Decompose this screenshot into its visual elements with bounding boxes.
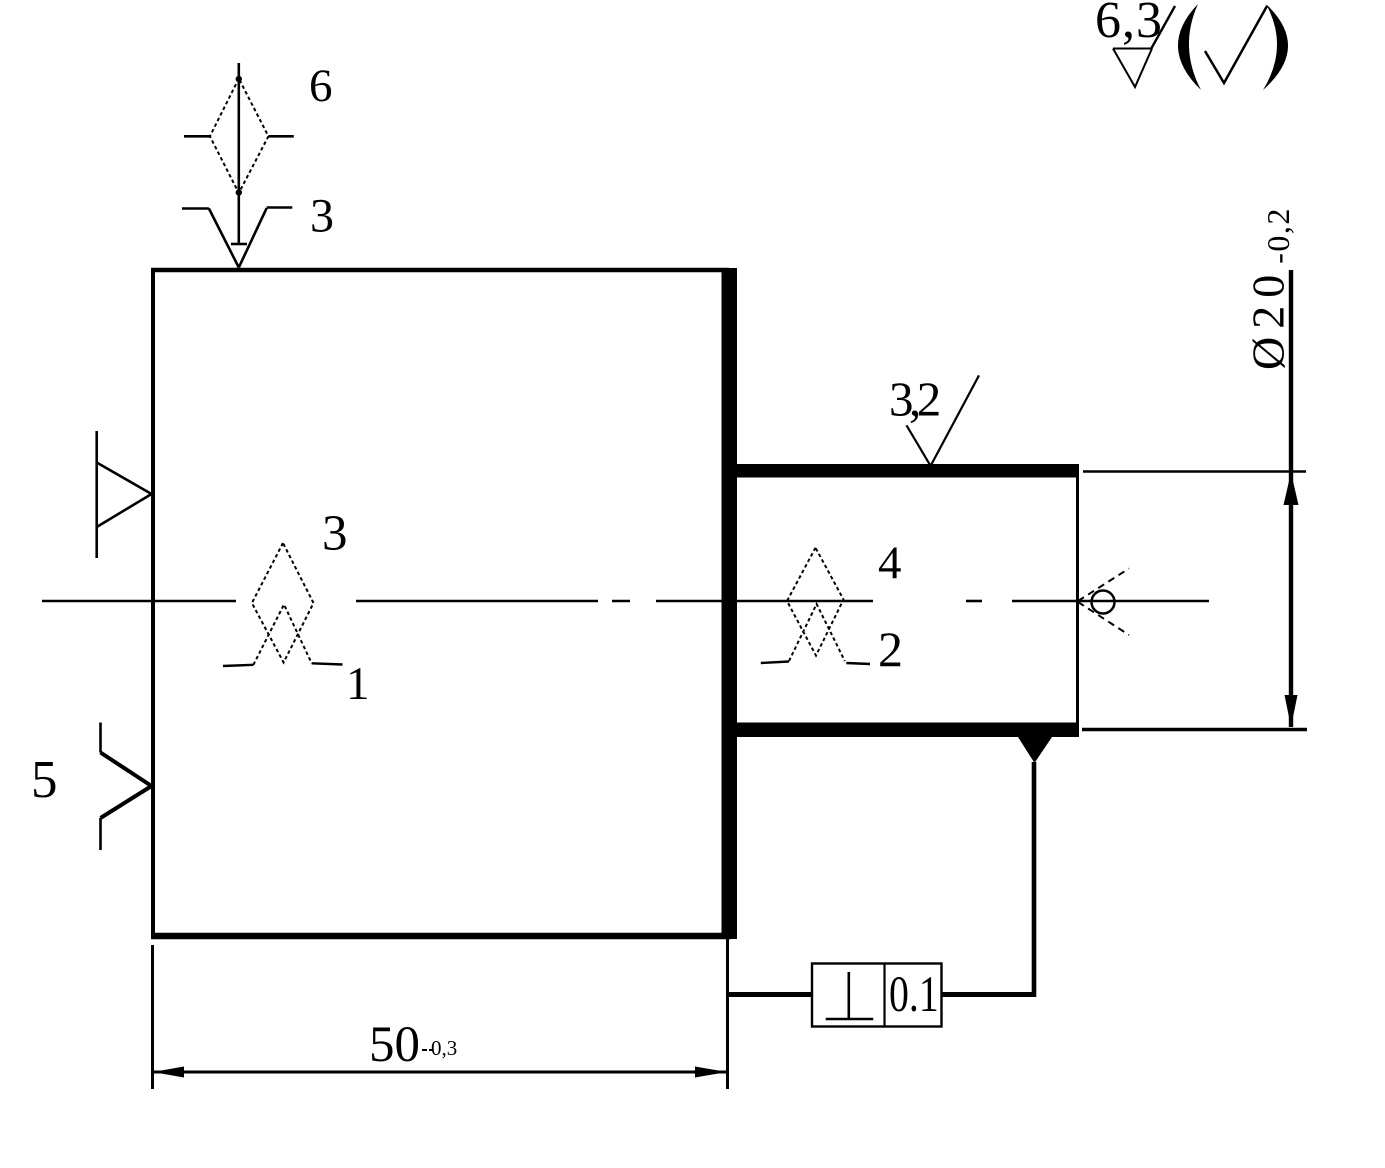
datum diamond group on axis (left block): diamond	[252, 543, 314, 665]
dimension O20-0,2: top arrowhead	[1284, 473, 1299, 506]
dimension O20-0,2: bottom arrowhead	[1285, 695, 1298, 727]
svg-text:4: 4	[878, 537, 902, 589]
svg-text:5: 5	[31, 751, 58, 809]
workpiece body left block: top edge	[151, 268, 729, 273]
svg-text:0,3: 0,3	[431, 1036, 457, 1060]
datum diamond group (left): flags	[223, 663, 343, 666]
svg-text:0.1: 0.1	[889, 965, 939, 1022]
dimension 50-0,3: right arrowhead	[695, 1067, 727, 1078]
svg-text:1: 1	[346, 658, 370, 710]
dimension 50-0,3: tolerance text	[422, 1049, 434, 1051]
bold opening parenthesis	[1178, 4, 1201, 90]
svg-text:3: 3	[322, 506, 348, 562]
svg-text:50: 50	[369, 1017, 420, 1073]
shaft step O20: right end face edge	[1076, 464, 1079, 737]
dimension 50-0,3: dimension line	[152, 1071, 727, 1074]
perpendicularity tolerance frame: divider	[883, 964, 885, 1027]
dimension O20-0,2: dimension line	[1289, 270, 1293, 727]
perpendicularity frame: vertical leader to step bottom face	[1032, 762, 1037, 997]
svg-text:6: 6	[309, 60, 333, 112]
workpiece body left block: thick right edge (step shoulder)	[722, 268, 738, 939]
clamp symbol on left face (lower), surface 5	[101, 723, 152, 851]
perpendicularity symbol	[826, 972, 874, 1019]
bold closing parenthesis	[1263, 4, 1288, 90]
datum diamond group (step): flags	[761, 662, 870, 665]
svg-text:6,3: 6,3	[1095, 0, 1163, 49]
dimension 50-0,3: left extension line	[151, 945, 154, 1089]
perpendicularity frame: right leader	[942, 992, 1037, 997]
dimension O20-0,2: bottom extension line	[1082, 728, 1307, 731]
centerline (axis)	[42, 600, 1209, 603]
roughness 3,2 check mark on step top surface	[907, 375, 980, 466]
shaft step O20: thick bottom edge	[722, 723, 1079, 738]
shaft step O20: thick top edge	[729, 464, 1079, 478]
perpendicularity tolerance frame: left leader	[728, 992, 814, 997]
workpiece body left block: left edge	[151, 268, 155, 939]
perpendicularity tolerance frame: box	[812, 964, 942, 1027]
svg-text:3,2: 3,2	[889, 372, 939, 427]
surface finish V symbol on top face, surface 3	[182, 208, 292, 268]
rotating center symbol at right end face	[1078, 569, 1129, 636]
clamp force arrow on top face with diamond, surface 6	[184, 63, 294, 244]
perpendicularity frame: leader arrowhead at step bottom face	[1018, 737, 1052, 763]
dimension 50-0,3: right extension line	[726, 939, 729, 1089]
svg-text:3: 3	[310, 190, 334, 243]
datum diamond group on axis (step): diamond	[787, 548, 845, 661]
dimension O20-0,2: top extension line	[1083, 470, 1306, 472]
dimension 50-0,3: left arrowhead	[153, 1067, 185, 1078]
general roughness note triangle symbol	[1113, 6, 1175, 87]
check mark in parentheses	[1205, 6, 1267, 83]
fixed support symbol on left face (upper)	[97, 431, 152, 558]
workpiece body left block: bottom edge	[151, 933, 731, 940]
svg-text:2: 2	[878, 621, 903, 677]
